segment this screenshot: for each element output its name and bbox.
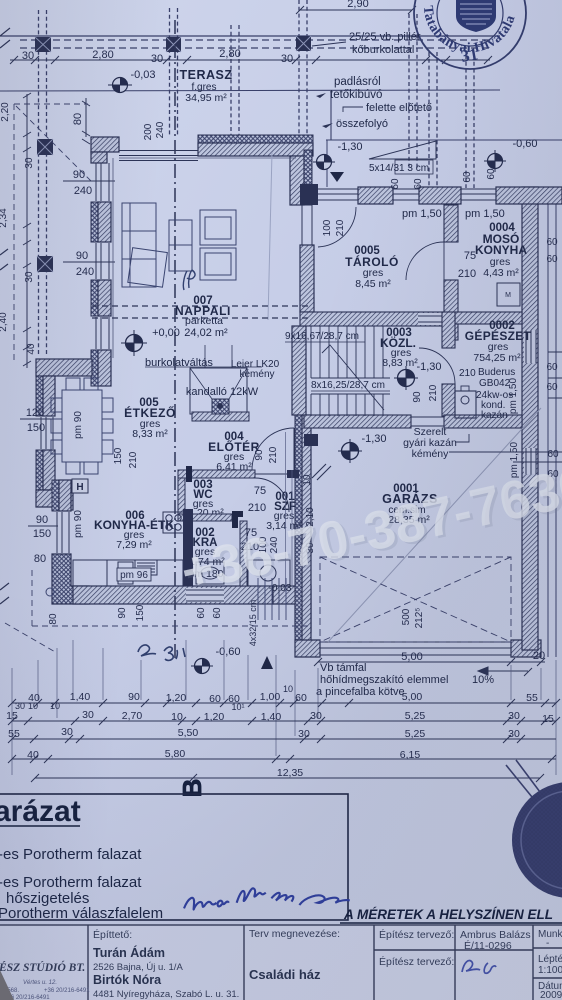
mosó door arc <box>406 242 444 280</box>
room 002 KRA labels <box>188 527 225 580</box>
title block: terv megnevezése cell <box>249 928 340 982</box>
roof wedge 5x14 <box>369 141 436 159</box>
wall garage top <box>304 415 411 428</box>
watermark phone number <box>176 454 562 606</box>
garage door from közl <box>411 417 444 426</box>
bay left wall piece 2 <box>36 450 55 490</box>
wall gépészet top <box>455 312 522 324</box>
room 004 ELŐTÉR labels <box>208 431 260 473</box>
kitchen dims 90/150/80 <box>33 514 51 565</box>
gépészet door arc <box>419 348 455 384</box>
bay left wall piece 1 <box>36 376 55 416</box>
room 007 NAPPALI labels <box>152 295 231 339</box>
paper crease line <box>268 152 272 320</box>
fireplace <box>190 345 249 421</box>
bottom dim row 5 line 12,35 <box>31 774 544 782</box>
stove cooktop <box>163 512 184 533</box>
survey point mosó right <box>484 150 506 172</box>
interior face line top <box>119 157 296 159</box>
room 006 KONYHA-ÉTK labels <box>94 510 174 551</box>
room 005 ÉTKEZŐ labels <box>124 397 176 440</box>
legend box <box>0 794 348 922</box>
terrace dim labels <box>22 48 293 65</box>
stamp top right: outer circle <box>414 0 526 69</box>
dim 90/240 lower <box>76 250 94 278</box>
garage door threshold lines <box>320 642 511 655</box>
wc door posts <box>186 466 192 482</box>
window N1 top <box>119 151 198 161</box>
dining table furniture <box>51 378 113 474</box>
dim 5,00 garage <box>314 650 545 666</box>
wall wc left <box>178 478 185 518</box>
window W3 left <box>96 317 109 349</box>
title block: építtető cell <box>93 928 239 1000</box>
bay bottom corner <box>36 490 73 510</box>
title block table <box>0 925 562 1000</box>
left wall dim line <box>82 98 90 144</box>
crease diagonal garage <box>328 408 541 642</box>
right plot boundary lines <box>548 187 556 657</box>
room 0001 GARÁZS labels <box>382 483 438 526</box>
staircase lower flight <box>311 394 390 416</box>
garage left wall column <box>295 415 302 650</box>
bottom wall right corner to garage <box>273 586 311 632</box>
kitchen/kra wall stub <box>183 509 193 586</box>
dim 90/240 upper <box>73 169 92 197</box>
mosó wing top wall: corner block <box>300 184 318 205</box>
axis pair A (left pillars column) <box>38 10 40 356</box>
wall wc/kra divider <box>178 514 232 521</box>
top dimension line 2,90 <box>296 6 416 14</box>
terrace top edge line <box>0 35 500 37</box>
annotation padlásról tetőkibúvó <box>330 76 382 101</box>
handwritten signature <box>184 888 350 909</box>
garage ramp dashed X <box>320 557 511 642</box>
annotation 25/25 vb pillér <box>349 31 421 56</box>
wall hatch test <box>0 0 500 356</box>
pillar P5 left column <box>37 139 53 155</box>
kra door post T <box>232 511 243 528</box>
mosó wing window 2 <box>393 189 419 200</box>
axis pair E <box>428 52 430 188</box>
nappali attic dashed line 1 <box>92 305 310 307</box>
bay étkező top wall <box>36 359 92 376</box>
room 0002 GÉPÉSZET labels <box>465 320 532 364</box>
garage bottom-left corner <box>295 640 320 657</box>
kitchen left wall upper <box>52 480 71 511</box>
handwritten PF mark <box>183 270 195 290</box>
kitchen bottom-left corner wall <box>52 554 89 604</box>
bottom dim row 3 labels <box>8 726 520 740</box>
handwritten 2k mark <box>138 645 185 660</box>
stamp bottom right dark circle <box>506 760 562 898</box>
pillar P3 <box>296 36 311 51</box>
dim guide verticals <box>12 640 556 775</box>
axis pair X (2,90 line) <box>408 14 410 170</box>
bay dims 120/150 <box>26 407 45 434</box>
room TERASZ label <box>180 68 233 104</box>
dashed splay corner terrace <box>16 106 92 182</box>
survey point terrace <box>108 78 132 93</box>
pillar P2 <box>166 37 181 52</box>
bottom dim row 1 labels <box>15 684 538 712</box>
sofa set furniture <box>122 203 236 287</box>
house bottom wall <box>73 586 273 604</box>
left dim rotated labels <box>0 102 37 355</box>
left wall piece 4 (corner to bay) <box>91 350 111 386</box>
title block: right cells <box>538 929 562 1000</box>
room 003 WC labels <box>188 479 224 519</box>
terrace dimension line <box>10 56 492 64</box>
room 0003 KÖZL labels <box>380 327 418 369</box>
title block: tervező cells <box>379 928 531 973</box>
mosó wing window 1 <box>318 189 358 200</box>
window W1 left <box>96 163 109 201</box>
roof overhang line above house <box>0 90 500 91</box>
nappali attic dashed line 2 <box>92 317 310 319</box>
wall kra/szf divider <box>240 521 247 586</box>
terrace dashed edge lines <box>20 39 490 41</box>
door opening tároló/közl <box>418 313 442 325</box>
bay window <box>41 417 53 449</box>
bottom dim row 1 line <box>8 699 560 707</box>
left dashed boundary <box>14 104 88 360</box>
stamp crest shield <box>456 0 496 32</box>
room 0004 MOSÓ KONYHA labels <box>475 222 527 279</box>
wall közl/gépészet divider <box>442 312 455 348</box>
interior face line left <box>112 158 114 358</box>
wall: nappali right top segment <box>290 156 304 205</box>
black triangle mosó <box>330 172 344 182</box>
garage bottom-right corner <box>511 640 541 657</box>
stair walk line <box>322 345 384 410</box>
pillar P6 left column <box>37 256 53 272</box>
wall: nappali top (hatched band) <box>198 135 313 143</box>
wall wc top <box>178 470 255 478</box>
10% arrow <box>478 667 532 676</box>
right exterior wall <box>522 187 538 650</box>
left wall piece 3 <box>91 280 111 316</box>
H hydrant marker <box>72 479 88 493</box>
title block paper lightening <box>0 924 562 1000</box>
wall break mark garage left <box>312 464 331 480</box>
gépészet texts Buderus <box>459 367 515 421</box>
mosó wing window 3 <box>461 189 496 200</box>
text Szerelt gyári kazán kémény <box>403 426 469 460</box>
wall: nappali top-left corner <box>91 137 119 163</box>
pm 96 box label <box>117 568 151 581</box>
left vertical dim line <box>23 93 31 368</box>
pillar P1 <box>35 37 51 52</box>
center axis dash-dot vertical <box>174 20 176 660</box>
wall block közl bottom <box>304 434 318 446</box>
left wall piece 2 <box>91 202 111 242</box>
axis pair B <box>169 8 171 135</box>
entry steps 4x32 <box>258 578 286 620</box>
boiler <box>455 386 476 418</box>
garage right outside dim ticks <box>449 352 562 462</box>
room 0005 TÁROLÓ labels <box>345 245 399 290</box>
axis pair D <box>298 0 300 140</box>
wc door arc <box>255 478 289 512</box>
title block: logo cell <box>0 960 90 1000</box>
black triangle marker <box>261 656 273 669</box>
axis pair C (mid span) <box>230 25 232 137</box>
bottom dim row 2 labels <box>6 709 554 725</box>
wall tároló left <box>300 245 314 312</box>
eave dashed line bottom <box>5 570 311 653</box>
survey point bottom <box>191 659 213 674</box>
wall tároló/mosó divider <box>444 205 458 242</box>
room 001 SZF labels <box>266 491 302 532</box>
drain circle outside <box>46 588 54 596</box>
mosó wing top wall segments <box>358 187 393 204</box>
right edge rotated labels <box>508 237 559 480</box>
survey point garage <box>338 439 362 463</box>
survey point közl <box>394 366 418 390</box>
staircase upper flight <box>311 326 390 378</box>
bottom dim row 2 line <box>8 717 560 725</box>
survey point nappali <box>121 330 147 356</box>
axis pair F <box>465 55 467 188</box>
dim extension verticals garage left <box>286 432 293 585</box>
bottom wall window gap <box>186 588 224 602</box>
előtér entry door arc <box>252 428 294 470</box>
text Vb támfal block <box>316 662 494 698</box>
bottom dim row 4 line <box>8 755 556 763</box>
bottom wall rotated dims <box>48 604 223 624</box>
text Leier LK20 kémény <box>231 359 280 380</box>
bottom dim row 4 labels <box>27 748 420 761</box>
stamp inner circle <box>437 0 503 46</box>
tároló door arc top-left <box>318 207 356 247</box>
survey point mosó left <box>313 155 335 170</box>
kra fixtures <box>196 560 290 586</box>
kitchen counter row <box>73 560 183 586</box>
wall tároló/közl horizontal <box>300 312 444 326</box>
wall közl left <box>292 326 306 415</box>
window W2 left <box>96 243 109 279</box>
right wall window gépészet <box>524 330 536 363</box>
bottom dim row 3 line <box>8 735 556 743</box>
left edge tick marks <box>0 28 10 604</box>
right wall window garage <box>524 448 536 474</box>
washing machine M <box>497 283 520 306</box>
paper corner bottom left <box>0 970 14 1000</box>
kitchen window left <box>57 512 69 553</box>
wing roof overhang line <box>326 139 562 141</box>
rotated 60 labels above mosó wall <box>390 168 497 190</box>
